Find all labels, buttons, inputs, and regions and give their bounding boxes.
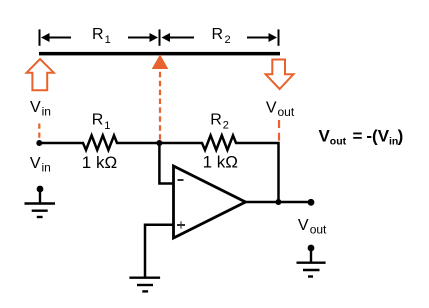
svg-text:V: V (298, 217, 309, 234)
svg-text:out: out (278, 105, 295, 119)
svg-text:V: V (30, 155, 41, 172)
svg-text:1: 1 (104, 120, 110, 132)
svg-text:=: = (353, 126, 363, 145)
svg-text:R: R (92, 26, 104, 43)
svg-text:V: V (30, 99, 41, 116)
svg-text:-(V: -(V (366, 126, 389, 145)
svg-text:2: 2 (225, 34, 231, 46)
svg-text:out: out (330, 136, 347, 148)
svg-text:1 kΩ: 1 kΩ (203, 152, 238, 171)
svg-text:in: in (42, 160, 51, 174)
svg-text:R: R (92, 111, 104, 128)
svg-text:2: 2 (223, 120, 229, 132)
svg-text:1: 1 (105, 34, 111, 46)
svg-text:): ) (398, 126, 404, 145)
svg-text:out: out (310, 222, 327, 236)
svg-text:in: in (42, 105, 51, 119)
svg-text:V: V (266, 99, 277, 116)
svg-text:R: R (212, 26, 224, 43)
svg-text:1 kΩ: 1 kΩ (82, 153, 117, 172)
svg-text:R: R (210, 112, 222, 129)
svg-text:V: V (319, 126, 331, 145)
